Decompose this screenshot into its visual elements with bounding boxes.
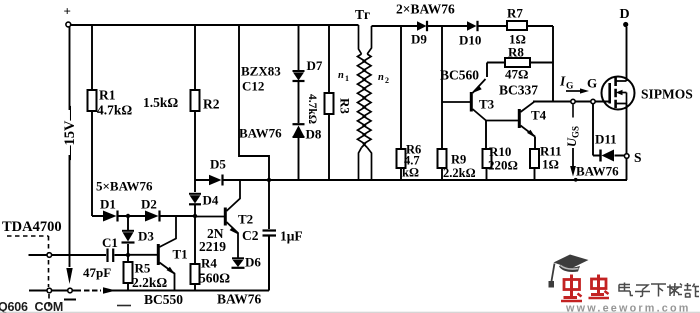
scan artifact marks: [0, 306, 700, 313]
watermark chong char 1: [561, 275, 582, 302]
zener D7: [293, 71, 305, 81]
svg-text:C1: C1: [102, 235, 118, 250]
wire top rail: [71, 24, 359, 26]
svg-text:D7: D7: [307, 58, 323, 73]
svg-text:BZX83: BZX83: [241, 64, 281, 79]
svg-text:R3: R3: [338, 98, 353, 114]
svg-text:4.7kΩ: 4.7kΩ: [306, 94, 318, 124]
svg-text:2219: 2219: [199, 239, 226, 254]
node minus terminal: [64, 288, 76, 299]
wire T3 emitter riser: [486, 63, 488, 78]
diode D11: [601, 150, 615, 162]
wire R8 leads: [487, 62, 553, 64]
resistor R1: [88, 90, 97, 111]
svg-text:BAW76: BAW76: [217, 292, 262, 307]
diode D3: [122, 231, 135, 243]
node + terminal: [66, 22, 71, 27]
resistor R10: [483, 149, 492, 168]
capacitor C2: [263, 231, 277, 236]
svg-text:2.2kΩ: 2.2kΩ: [443, 166, 476, 180]
svg-text:D9: D9: [411, 32, 427, 47]
svg-text:GS: GS: [571, 126, 581, 138]
wire D3/R5 branch vertical: [127, 216, 129, 291]
junction dots: [126, 178, 578, 257]
transistor T4: [486, 101, 536, 138]
wire source: [626, 104, 628, 181]
wire T2 feed from top rail: [239, 25, 269, 291]
diode D8: [293, 124, 305, 137]
svg-text:T1: T1: [173, 247, 188, 262]
svg-text:S: S: [634, 150, 642, 165]
svg-text:220Ω: 220Ω: [488, 158, 518, 173]
resistor R7: [507, 21, 527, 30]
svg-text:n: n: [338, 70, 344, 81]
node gate test point 1: [571, 99, 575, 103]
svg-text:n: n: [378, 72, 384, 83]
svg-text:C12: C12: [242, 79, 264, 94]
svg-text:Q606_COM: Q606_COM: [0, 300, 63, 313]
svg-text:D3: D3: [138, 229, 154, 244]
resistor R2: [191, 90, 200, 111]
node D terminal: [623, 22, 628, 27]
svg-text:1μF: 1μF: [280, 229, 303, 244]
svg-text:D2: D2: [141, 197, 157, 212]
capacitor C1: [108, 249, 114, 263]
watermark chong char 2: [589, 275, 610, 299]
resistor R11: [530, 149, 539, 168]
diode D6: [232, 258, 245, 268]
U_GS voltage arrow: [570, 105, 576, 177]
resistor R8: [505, 58, 530, 67]
svg-text:TDA4700: TDA4700: [2, 219, 62, 235]
node TDA pin circle bottom rail: [47, 288, 52, 293]
svg-text:T3: T3: [479, 97, 495, 112]
wire -15V left vertical: [69, 27, 71, 267]
wire D11 branch: [593, 104, 625, 156]
svg-text:2×BAW76: 2×BAW76: [396, 2, 455, 17]
node S terminal: [624, 154, 629, 159]
svg-text:C2: C2: [242, 228, 259, 243]
svg-text:5×BAW76: 5×BAW76: [96, 179, 153, 194]
svg-text:D5: D5: [210, 157, 226, 172]
svg-text:T4: T4: [531, 108, 547, 123]
wire gate line: [533, 101, 609, 103]
wire drain: [626, 27, 628, 81]
resistor R3: [325, 93, 334, 114]
svg-text:560Ω: 560Ω: [199, 271, 230, 286]
watermark text dianzi xiazaizhan: [619, 283, 699, 298]
resistor R5: [124, 262, 133, 283]
wire R3 branch vertical: [328, 25, 330, 180]
label U_GS rotated: [565, 126, 581, 147]
svg-text:R7: R7: [507, 6, 523, 21]
svg-text:T2: T2: [238, 212, 253, 227]
svg-text:G: G: [587, 76, 597, 91]
svg-text:R2: R2: [203, 97, 220, 112]
svg-text:R1: R1: [99, 88, 116, 103]
node gate test point 2: [591, 99, 595, 103]
wire T3 collector to T4 base / R10: [485, 121, 488, 181]
svg-text:—15V—: —15V—: [62, 106, 78, 161]
svg-text:BAW76: BAW76: [239, 126, 282, 141]
svg-text:D11: D11: [595, 132, 617, 147]
wire C2 column bottom: [268, 236, 270, 291]
wire R6 branch: [400, 26, 402, 180]
svg-text:R8: R8: [508, 45, 524, 60]
resistor R9: [438, 149, 447, 168]
resistor R4: [191, 264, 200, 284]
MOSFET SIPMOS: [602, 77, 635, 110]
svg-text:I: I: [559, 74, 566, 89]
diode D9: [417, 21, 427, 31]
svg-text:BC337: BC337: [499, 83, 538, 98]
transistor T2: [196, 181, 240, 258]
wire D7/D8 branch vertical: [298, 25, 300, 180]
transistor T3: [442, 79, 486, 121]
svg-text:BAW76: BAW76: [576, 164, 619, 179]
svg-text:D8: D8: [306, 127, 322, 142]
wire C1 row: [29, 254, 129, 256]
svg-text:BC550: BC550: [144, 292, 183, 307]
wire middle rail: [195, 179, 627, 181]
arrow -15V down: [66, 268, 72, 284]
node TDA pin circle C1 row: [47, 253, 52, 258]
diode D5: [209, 175, 223, 186]
svg-text:47Ω: 47Ω: [505, 67, 528, 82]
svg-text:G: G: [566, 82, 574, 92]
resistor R6: [397, 149, 406, 168]
svg-text:4.7kΩ: 4.7kΩ: [97, 103, 132, 118]
TDA4700 dashed box: [7, 236, 49, 308]
svg-text:2.2kΩ: 2.2kΩ: [132, 275, 167, 290]
svg-text:2: 2: [385, 76, 389, 85]
svg-text:D1: D1: [100, 197, 116, 212]
svg-text:D4: D4: [203, 193, 219, 208]
watermark graduation cap: [549, 255, 589, 288]
wire D1 D2 row: [92, 215, 195, 217]
wire R1 branch vertical: [91, 25, 93, 216]
svg-text:1: 1: [345, 74, 349, 83]
diode D4: [189, 194, 201, 205]
transistor T1: [129, 216, 176, 291]
diode D2: [145, 211, 160, 222]
svg-text:D6: D6: [245, 255, 261, 270]
transformer Tr: [358, 25, 372, 180]
wire T3 base / R9 branch: [441, 26, 443, 180]
svg-text:+: +: [64, 4, 71, 19]
svg-text:BC560: BC560: [440, 68, 479, 83]
svg-text:D10: D10: [459, 33, 481, 48]
diode D1: [103, 211, 118, 222]
svg-text:Tг: Tг: [355, 7, 370, 22]
svg-text:SIPMOS: SIPMOS: [641, 87, 693, 102]
svg-text:R4: R4: [201, 256, 217, 271]
svg-text:1.5kΩ: 1.5kΩ: [143, 95, 178, 110]
wire T4 emitter to R11: [534, 137, 537, 181]
svg-text:47pF: 47pF: [83, 265, 111, 280]
wire secondary top run: [372, 26, 554, 102]
svg-text:D: D: [620, 7, 630, 22]
svg-text:R5: R5: [135, 261, 151, 276]
arrow I_G: [566, 88, 589, 93]
svg-text:1Ω: 1Ω: [542, 157, 559, 172]
svg-text:R9: R9: [451, 153, 466, 167]
svg-text:www.eeworm.com: www.eeworm.com: [565, 303, 691, 313]
wire R2/D4/R4 branch vertical: [194, 25, 196, 291]
wire bottom rail: [29, 290, 269, 292]
svg-text:kΩ: kΩ: [402, 166, 419, 180]
diode D10: [467, 21, 478, 31]
arrow bottom rail right: [103, 287, 116, 293]
